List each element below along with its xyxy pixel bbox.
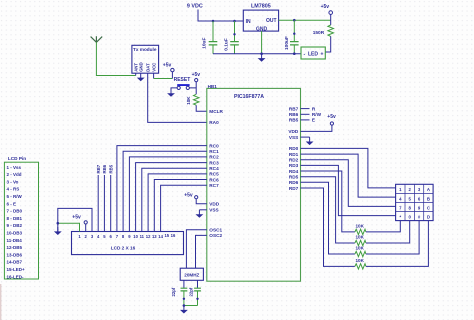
pin RD4 wire to resistor R3 bbox=[289, 169, 355, 232]
svg-text:LCD 2 X 16: LCD 2 X 16 bbox=[111, 246, 136, 251]
svg-text:+5v: +5v bbox=[327, 114, 336, 120]
LCD pin legend box bbox=[4, 156, 38, 279]
svg-text:3 - Vo: 3 - Vo bbox=[7, 179, 19, 184]
svg-text:6 - E: 6 - E bbox=[7, 201, 17, 206]
pin RB6 right bbox=[289, 112, 322, 117]
antenna bbox=[91, 36, 103, 42]
wire button left to ground bbox=[171, 88, 177, 89]
wire 10K to MCLR bbox=[196, 105, 207, 111]
wire LCD pin6 net RB5 bbox=[108, 164, 113, 231]
pin OSC1 bbox=[186, 228, 222, 269]
svg-text:11: 11 bbox=[140, 234, 145, 239]
wire regulator OUT to +5v bbox=[279, 19, 331, 21]
svg-text:RB5: RB5 bbox=[289, 118, 299, 123]
pin VDD left with +5v terminal bbox=[184, 193, 220, 207]
svg-text:OSC1: OSC1 bbox=[209, 228, 222, 233]
pin RC3 bbox=[136, 160, 219, 231]
terminal +5v Tx bbox=[163, 62, 174, 72]
svg-text:C: C bbox=[427, 205, 430, 210]
svg-text:VDD: VDD bbox=[209, 202, 220, 207]
terminal +5v output bbox=[321, 4, 333, 25]
svg-text:A: A bbox=[427, 187, 430, 192]
pin RD3 wire to keypad row4 bbox=[289, 163, 396, 215]
pin RC7 bbox=[161, 183, 219, 232]
svg-text:RB7: RB7 bbox=[289, 106, 299, 111]
wire button right node bbox=[189, 82, 196, 95]
svg-text:RD7: RD7 bbox=[289, 186, 299, 191]
svg-text:B: B bbox=[427, 196, 430, 201]
junction ground rail bbox=[260, 52, 263, 55]
svg-text:13: 13 bbox=[152, 234, 157, 239]
svg-text:RC0: RC0 bbox=[209, 143, 219, 148]
svg-text:RD6: RD6 bbox=[289, 180, 299, 185]
svg-text:RD2: RD2 bbox=[289, 158, 299, 163]
svg-text:10uF: 10uF bbox=[201, 38, 207, 49]
svg-text:RC1: RC1 bbox=[209, 149, 219, 154]
svg-text:Tx module: Tx module bbox=[133, 47, 157, 52]
capacitor C5 22pf bbox=[189, 280, 201, 305]
ground symbol Tx GND bbox=[137, 73, 145, 81]
pin OSC2 bbox=[196, 233, 223, 268]
svg-text:9 - DB2: 9 - DB2 bbox=[7, 223, 23, 228]
LCD connector J1 bbox=[72, 232, 184, 255]
svg-text:RD3: RD3 bbox=[289, 163, 299, 168]
Tx module U3 bbox=[132, 45, 159, 73]
keypad 4x4 bbox=[396, 184, 434, 220]
pin RC6 bbox=[154, 177, 219, 231]
wire LCD pin1 to ground net bbox=[58, 223, 80, 231]
svg-text:MCLR: MCLR bbox=[209, 109, 223, 114]
svg-text:5 - R/W: 5 - R/W bbox=[7, 194, 23, 199]
pin stub ANT bbox=[135, 73, 137, 75]
svg-text:IN: IN bbox=[246, 19, 251, 25]
svg-text:10-DB3: 10-DB3 bbox=[7, 231, 23, 236]
svg-text:7 - DB0: 7 - DB0 bbox=[7, 209, 23, 214]
svg-text:RC2: RC2 bbox=[209, 155, 219, 160]
svg-text:RC7: RC7 bbox=[209, 183, 219, 188]
svg-text:HB1: HB1 bbox=[208, 84, 218, 89]
pin RB7 right bbox=[289, 106, 316, 111]
wire ground rail bbox=[213, 53, 301, 55]
pin VSS right with ground bbox=[289, 135, 314, 145]
svg-text:RD1: RD1 bbox=[289, 152, 299, 157]
pin VDD right with +5v terminal bbox=[288, 114, 336, 134]
capacitor C3 100uF bbox=[284, 20, 299, 55]
svg-text:10: 10 bbox=[133, 234, 138, 239]
wire regulator GND down bbox=[261, 31, 263, 54]
svg-text:RB6: RB6 bbox=[289, 112, 299, 117]
svg-text:RC3: RC3 bbox=[209, 160, 219, 165]
svg-text:20MHZ: 20MHZ bbox=[184, 273, 199, 278]
svg-text:RB7: RB7 bbox=[96, 164, 101, 173]
pin RD2 wire to keypad row3 bbox=[289, 158, 396, 207]
pin RD6 wire to resistor R5 bbox=[289, 180, 355, 254]
svg-text:13-DB6: 13-DB6 bbox=[7, 252, 23, 257]
svg-text:+5v: +5v bbox=[321, 4, 330, 10]
terminal +5v LCD pin2 bbox=[72, 215, 87, 232]
svg-text:14: 14 bbox=[158, 234, 163, 239]
pin RC5 bbox=[148, 172, 219, 232]
capacitor C4 22pf bbox=[171, 280, 188, 305]
junction dot crystal left lead bbox=[183, 298, 185, 300]
wire LCD pin5 net RB6 bbox=[102, 164, 107, 231]
svg-text:+5v: +5v bbox=[184, 193, 193, 199]
resistor 10K row3 bbox=[355, 221, 419, 257]
svg-text:E: E bbox=[312, 118, 315, 123]
svg-text:8 - DB1: 8 - DB1 bbox=[7, 216, 23, 221]
svg-text:LM7805: LM7805 bbox=[251, 4, 271, 10]
svg-text:15: 15 bbox=[164, 233, 169, 238]
svg-text:150R: 150R bbox=[313, 30, 325, 36]
svg-text:22pf: 22pf bbox=[189, 287, 194, 296]
svg-text:+5v: +5v bbox=[163, 62, 172, 68]
resistor 150R bbox=[313, 25, 334, 36]
ground symbol crystal bbox=[180, 306, 188, 314]
crystal X1 20MHZ bbox=[180, 268, 203, 280]
svg-text:0.1uF: 0.1uF bbox=[224, 38, 230, 51]
pin RC0 bbox=[117, 143, 219, 231]
svg-text:RC5: RC5 bbox=[209, 172, 219, 177]
junction dot crystal ground bbox=[183, 304, 186, 307]
svg-text:RB5: RB5 bbox=[108, 164, 113, 173]
junction dot input cap C2 bbox=[233, 20, 236, 23]
wire resistor to LED bbox=[325, 36, 330, 52]
svg-text:+5v: +5v bbox=[72, 215, 81, 221]
svg-text:LCD Pin: LCD Pin bbox=[8, 156, 26, 161]
svg-text:RD5: RD5 bbox=[289, 175, 299, 180]
svg-text:16: 16 bbox=[171, 233, 176, 238]
junction dot ground net bbox=[57, 222, 60, 225]
svg-text:4 - RS: 4 - RS bbox=[7, 187, 20, 192]
svg-text:1 - Vss: 1 - Vss bbox=[7, 165, 22, 170]
svg-text:VSS: VSS bbox=[289, 135, 298, 140]
svg-text:14-DB7: 14-DB7 bbox=[7, 260, 23, 265]
svg-text:10K: 10K bbox=[356, 224, 365, 229]
svg-text:OSC2: OSC2 bbox=[209, 233, 222, 238]
ground symbol LCD bbox=[54, 227, 62, 235]
svg-text:LED: LED bbox=[308, 51, 318, 57]
resistor 10K reset bbox=[186, 94, 199, 105]
svg-text:9 VDC: 9 VDC bbox=[187, 3, 203, 9]
svg-text:RA0: RA0 bbox=[209, 120, 219, 125]
wire VCC to +5v bbox=[154, 72, 173, 79]
wire LCD pin3 to ground bbox=[58, 208, 92, 231]
svg-text:10K: 10K bbox=[356, 235, 365, 240]
pin RD1 wire to keypad row2 bbox=[289, 152, 396, 197]
svg-text:+5v: +5v bbox=[192, 72, 201, 78]
svg-text:D: D bbox=[427, 215, 430, 220]
wire LCD pin4 net RB7 bbox=[96, 164, 101, 231]
junction dot crystal right lead bbox=[196, 298, 198, 300]
svg-text:DAT: DAT bbox=[146, 63, 151, 72]
svg-text:RD0: RD0 bbox=[289, 146, 299, 151]
svg-text:RB6: RB6 bbox=[102, 164, 107, 173]
LED D1 bbox=[301, 47, 325, 59]
capacitor C2 0.1uF bbox=[224, 21, 239, 54]
pin RC1 bbox=[123, 149, 219, 231]
svg-text:10K: 10K bbox=[356, 246, 365, 251]
ground symbol reset bbox=[167, 89, 175, 97]
svg-text:RESET: RESET bbox=[174, 77, 191, 83]
junction dot 100uF bbox=[293, 19, 296, 22]
pushbutton RESET bbox=[177, 84, 190, 89]
svg-text:16-LED-: 16-LED- bbox=[7, 274, 25, 279]
pin RD5 wire to resistor R4 bbox=[289, 175, 355, 244]
pin RD0 wire to keypad row1 bbox=[289, 146, 396, 188]
svg-text:OUT: OUT bbox=[266, 18, 277, 24]
pin RC4 bbox=[142, 166, 219, 232]
svg-text:RC4: RC4 bbox=[209, 166, 219, 171]
ground symbol power bbox=[258, 54, 266, 62]
terminal +5v reset bbox=[192, 72, 201, 82]
edge smudge bottom left bbox=[0, 284, 1, 320]
svg-text:VCC: VCC bbox=[151, 63, 156, 72]
svg-text:12: 12 bbox=[146, 234, 151, 239]
resistor 10K row2 bbox=[355, 221, 410, 246]
svg-text:10K: 10K bbox=[356, 258, 365, 263]
svg-text:11-DB4: 11-DB4 bbox=[7, 238, 23, 243]
svg-text:GND: GND bbox=[139, 62, 144, 72]
svg-text:15-LED+: 15-LED+ bbox=[7, 267, 26, 272]
svg-text:VDD: VDD bbox=[288, 129, 299, 134]
junction dot input cap C1 bbox=[212, 20, 215, 23]
svg-text:RD4: RD4 bbox=[289, 169, 299, 174]
wire crystal caps ground bbox=[184, 305, 198, 307]
pin RC2 bbox=[129, 155, 219, 232]
capacitor C1 10uF bbox=[201, 21, 217, 54]
svg-text:2 - Vdd: 2 - Vdd bbox=[7, 172, 22, 177]
svg-text:12-DB5: 12-DB5 bbox=[7, 245, 23, 250]
pin VSS left with ground bbox=[196, 208, 219, 218]
svg-text:VSS: VSS bbox=[209, 208, 218, 213]
svg-text:PIC16F877A: PIC16F877A bbox=[234, 94, 264, 100]
wire DAT to RA0 bbox=[148, 73, 207, 122]
wire antenna to ANT pin bbox=[96, 42, 135, 75]
resistor 10K row1 bbox=[355, 221, 400, 235]
svg-text:+: + bbox=[321, 51, 324, 57]
wire 9VDC to regulator IN bbox=[198, 10, 243, 22]
pin RD7 wire to resistor R6 bbox=[289, 186, 355, 267]
PIC16F877A U1 box bbox=[207, 84, 301, 281]
svg-text:22pf: 22pf bbox=[171, 287, 176, 296]
svg-text:RC6: RC6 bbox=[209, 177, 219, 182]
pin RB5 right bbox=[289, 118, 315, 123]
resistor 10K row4 bbox=[355, 221, 429, 270]
svg-text:10K: 10K bbox=[186, 96, 191, 105]
svg-text:R/W: R/W bbox=[312, 112, 322, 117]
regulator U2 LM7805 bbox=[243, 4, 278, 33]
svg-text:100uF: 100uF bbox=[284, 36, 290, 50]
